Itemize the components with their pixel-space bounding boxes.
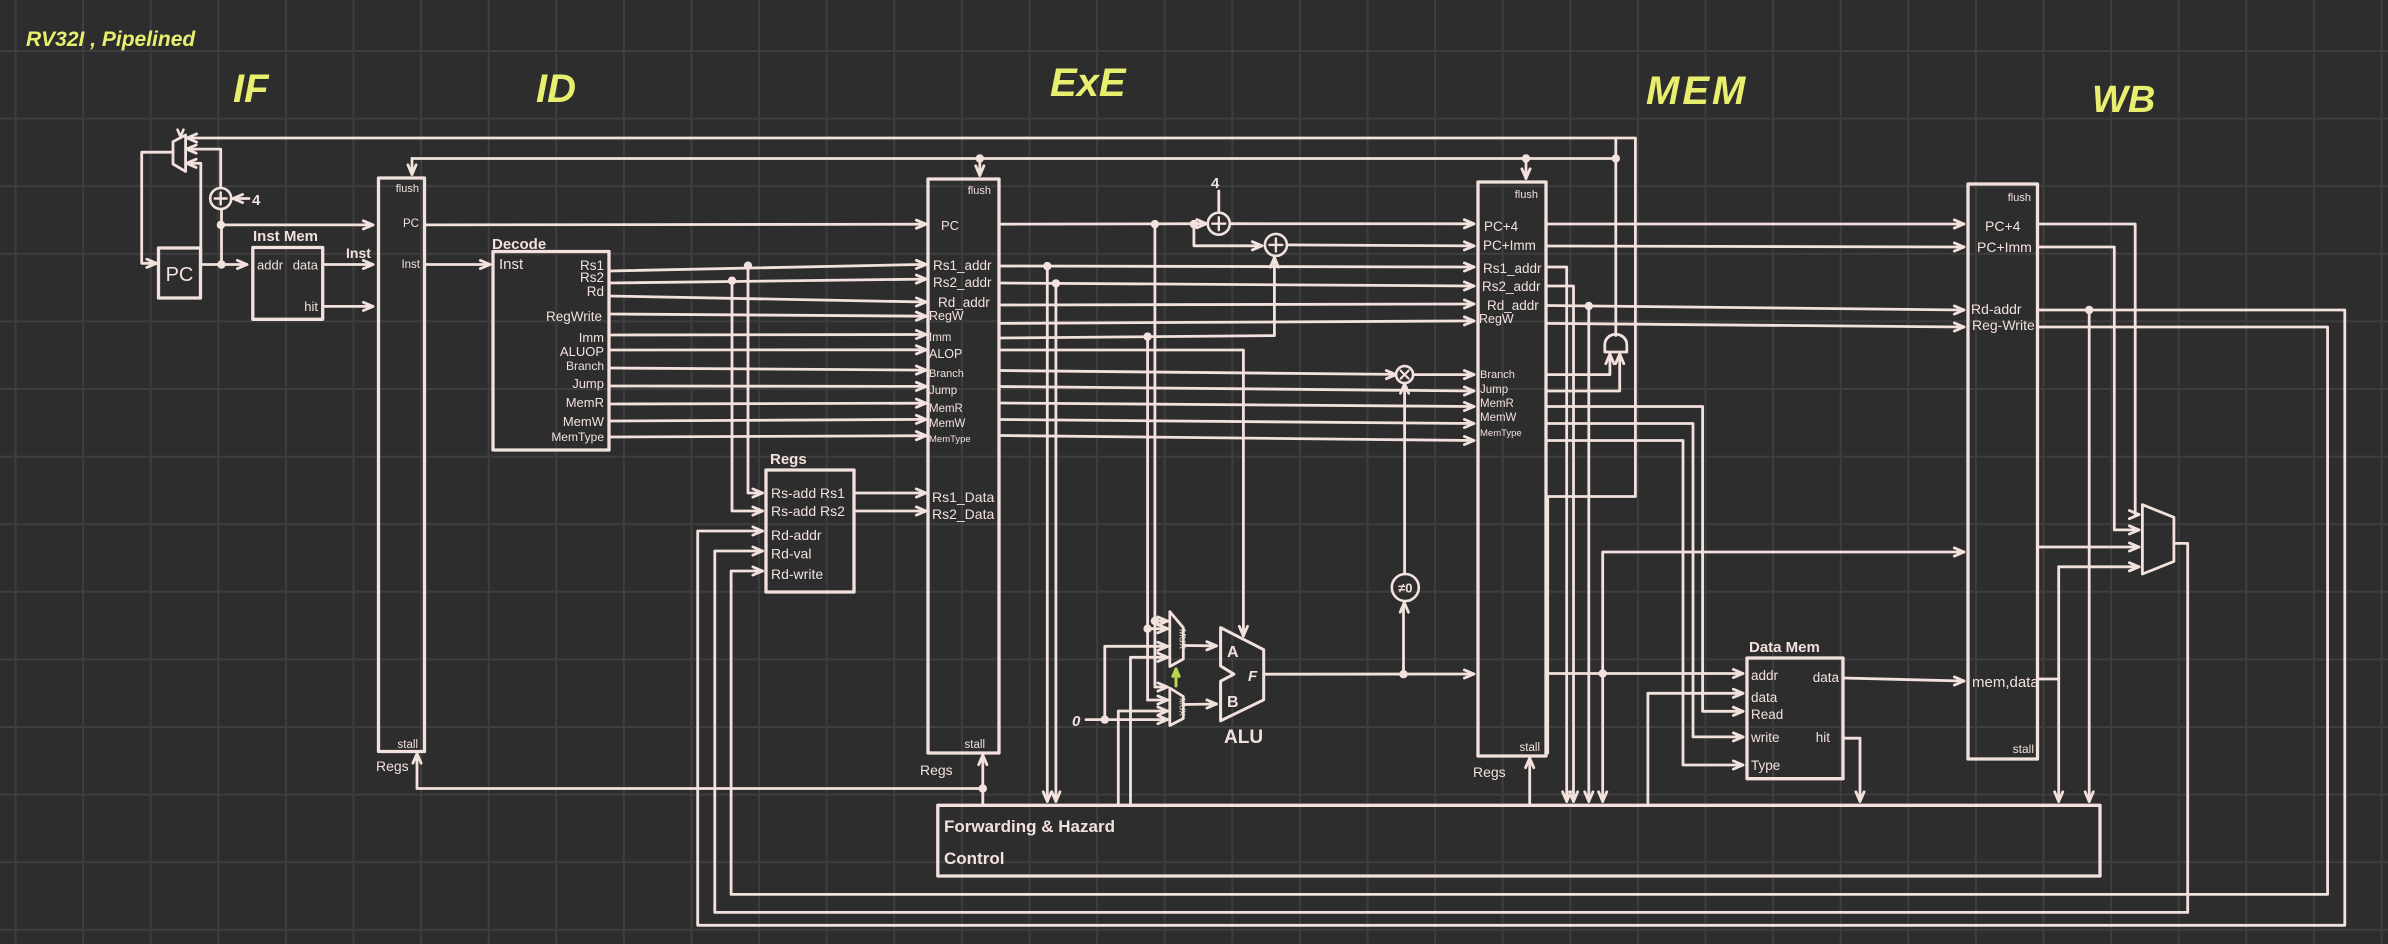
wire ID/EX Rd_addr to EX/MEM bbox=[999, 304, 1473, 305]
wire WB mux output writeback loop to Regs Rd-val bbox=[715, 543, 2188, 912]
svg-text:PC: PC bbox=[403, 218, 419, 230]
svg-text:MemW: MemW bbox=[1480, 412, 1517, 424]
svg-text:MemR: MemR bbox=[929, 403, 963, 415]
wire EX/MEM Rs1_addr to hazard unit bbox=[1546, 267, 1567, 800]
wire Rs1 addr down to Regs bbox=[748, 266, 761, 493]
svg-text:Rs2_Data: Rs2_Data bbox=[932, 506, 994, 522]
wire Imm down to operand muxes bbox=[1146, 337, 1149, 700]
svg-text:addr: addr bbox=[257, 258, 284, 273]
wire EX/MEM RegW to MEM/WB bbox=[1546, 323, 1963, 327]
wire Decode Rs2 to ID/EX bbox=[609, 279, 925, 283]
svg-text:hit: hit bbox=[304, 299, 318, 314]
wire Data Mem data out to MEM/WB bbox=[1843, 678, 1963, 681]
wire PC down to adder PC+Imm bbox=[1194, 224, 1261, 246]
svg-text:flush: flush bbox=[968, 185, 991, 197]
adder IF PC+4 bbox=[210, 188, 231, 209]
svg-text:ALUOP: ALUOP bbox=[560, 344, 604, 359]
svg-text:data: data bbox=[1813, 670, 1840, 685]
node Rs2 tap to register file bbox=[728, 277, 736, 285]
node zero branch to mux A bbox=[1101, 715, 1109, 723]
wire xor output to EX/MEM Branch bbox=[1413, 373, 1472, 376]
svg-text:≠0: ≠0 bbox=[1398, 581, 1412, 596]
svg-text:ID: ID bbox=[536, 67, 576, 111]
wire mux B to ALU B bbox=[1183, 703, 1215, 706]
mux A operand select bbox=[1170, 612, 1184, 667]
svg-text:Rs2_addr: Rs2_addr bbox=[933, 275, 992, 290]
node Imm into mux A bbox=[1143, 625, 1151, 633]
wire flush bus (wire B) bbox=[412, 157, 1616, 160]
wire EX/MEM Jump to and gate bbox=[1546, 356, 1620, 391]
svg-text:data: data bbox=[1751, 690, 1778, 705]
node Rs1_addr to hazard unit bbox=[1043, 262, 1051, 270]
svg-text:ALOP: ALOP bbox=[929, 347, 962, 361]
svg-text:Regs: Regs bbox=[1473, 764, 1506, 780]
wire Regs Rs1 value to ID/EX Rs1_Data bbox=[854, 492, 925, 495]
svg-text:4: 4 bbox=[252, 192, 261, 209]
wire EX/MEM MemR to Data Mem Read bbox=[1546, 407, 1742, 712]
wire Decode MemR to ID/EX bbox=[609, 402, 925, 406]
wire ID/EX Rs2_addr to EX/MEM bbox=[999, 283, 1473, 286]
svg-text:F: F bbox=[1248, 668, 1258, 685]
svg-text:data: data bbox=[293, 258, 319, 273]
wire MEM/WB ALU result to WB mux bbox=[2038, 546, 2138, 549]
svg-text:Rd-addr: Rd-addr bbox=[1971, 301, 2022, 317]
xor gate branch qualify bbox=[1396, 366, 1413, 383]
svg-text:Reg-Write: Reg-Write bbox=[1972, 317, 2035, 333]
wire Decode RegWrite to ID/EX bbox=[609, 314, 925, 316]
wire branch redirect to PC mux (wire A) bbox=[189, 138, 1635, 753]
svg-text:Rd_addr: Rd_addr bbox=[1487, 298, 1539, 313]
wire EX/MEM PC+Imm to MEM/WB bbox=[1546, 246, 1963, 247]
node PC to PC+Imm adder tap bbox=[1190, 220, 1198, 228]
wire and gate output to flush bus bbox=[1614, 138, 1617, 336]
decoder Decode bbox=[493, 252, 609, 451]
wire PC hold loop to PC mux bbox=[188, 163, 201, 264]
svg-text:Jump: Jump bbox=[929, 385, 957, 397]
svg-text:Inst Mem: Inst Mem bbox=[253, 228, 318, 245]
wire Imm into mux B bbox=[1148, 699, 1166, 702]
svg-text:flush: flush bbox=[2008, 192, 2031, 204]
wire stall bus from hazard unit to IF/ID and ID/EX bbox=[417, 787, 983, 790]
svg-text:MUX: MUX bbox=[1178, 698, 1187, 716]
node PC+4 junction bbox=[217, 221, 225, 229]
comparator not-equal-zero bbox=[1392, 574, 1419, 601]
wire MEM/WB PC+4 to WB mux bbox=[2038, 224, 2138, 515]
node Rd_addr to hazard unit bbox=[1585, 302, 1593, 310]
svg-text:Inst: Inst bbox=[401, 259, 420, 271]
node ALU result to neq0 bbox=[1399, 670, 1407, 678]
wire ID/EX MemR to EX/MEM bbox=[999, 403, 1473, 407]
svg-text:write: write bbox=[1750, 730, 1780, 745]
svg-text:Inst: Inst bbox=[346, 245, 371, 261]
wire EX/MEM MemType to Data Mem Type bbox=[1546, 441, 1742, 766]
data memory Data Mem bbox=[1747, 658, 1843, 779]
wire adder PC+Imm to EX/MEM bbox=[1287, 245, 1472, 246]
pipeline register MEM/WB bbox=[1968, 184, 2038, 759]
wire forwarded value to mux B bbox=[1118, 711, 1166, 805]
wire flush drop to IF/ID bbox=[411, 159, 414, 173]
wire mux A to ALU A bbox=[1183, 644, 1215, 647]
svg-text:Branch: Branch bbox=[566, 359, 604, 373]
svg-text:Rs-add Rs2: Rs-add Rs2 bbox=[771, 503, 845, 519]
instruction memory Inst Mem bbox=[253, 248, 323, 320]
wire adder PC+4 to EX/MEM bbox=[1230, 222, 1472, 225]
wire ID/EX RegW to EX/MEM bbox=[999, 321, 1473, 324]
node Rd_addr to hazard unit bbox=[2085, 306, 2093, 314]
svg-text:0: 0 bbox=[1072, 713, 1081, 730]
pipeline register ID/EX bbox=[928, 179, 999, 753]
svg-text:Rd-val: Rd-val bbox=[771, 546, 811, 562]
wire Decode MemType to ID/EX bbox=[609, 436, 925, 437]
adder PC+4 (EX) bbox=[1208, 213, 1230, 235]
svg-text:Regs: Regs bbox=[920, 762, 953, 778]
svg-text:IF: IF bbox=[233, 67, 270, 111]
svg-text:Rs1_addr: Rs1_addr bbox=[1483, 261, 1542, 276]
forwarding and hazard control unit bbox=[938, 805, 2100, 876]
wire MEM/WB Rd_addr writeback loop bbox=[698, 310, 2345, 925]
wire Decode Jump to ID/EX bbox=[609, 385, 925, 388]
wire Inst Mem data to IF/ID Inst bbox=[323, 263, 372, 266]
svg-text:RegWrite: RegWrite bbox=[546, 309, 602, 324]
wire store data from hazard unit to Data Mem bbox=[1648, 693, 1742, 805]
svg-text:Imm: Imm bbox=[929, 332, 951, 344]
wire PC+4 to IF/ID PC port bbox=[221, 223, 372, 226]
svg-text:MemR: MemR bbox=[1480, 398, 1514, 410]
node flush to ID/EX bbox=[976, 154, 984, 162]
wire stall to EX/MEM bbox=[1528, 760, 1531, 805]
wire ID/EX Branch to xor gate bbox=[999, 371, 1395, 375]
svg-text:Read: Read bbox=[1751, 707, 1783, 722]
wire ID/EX Jump to EX/MEM bbox=[999, 387, 1473, 392]
wire ALU result up to MEM/WB bbox=[1603, 552, 1963, 674]
wire neq0 output up to xor bbox=[1403, 386, 1406, 574]
wire ALU F result to EX/MEM bbox=[1264, 673, 1473, 676]
wire Regs Rs2 value to ID/EX Rs2_Data bbox=[854, 510, 925, 513]
wire Rs2 addr down to Regs bbox=[732, 281, 761, 511]
svg-text:MemW: MemW bbox=[929, 418, 966, 430]
svg-text:Rd-addr: Rd-addr bbox=[771, 527, 822, 543]
svg-text:Rs2: Rs2 bbox=[580, 270, 604, 285]
op-amp style ALU bbox=[1221, 628, 1264, 721]
node ALU result junction MEM bbox=[1599, 669, 1607, 677]
node flush to EX/MEM bbox=[1522, 154, 1530, 162]
svg-text:Jump: Jump bbox=[572, 376, 604, 391]
wire forwarded value to mux A bbox=[1131, 657, 1167, 805]
wire ALU result down to hazard unit bbox=[1601, 674, 1604, 800]
svg-text:PC+Imm: PC+Imm bbox=[1977, 239, 2032, 255]
svg-text:RV32I , Pipelined: RV32I , Pipelined bbox=[26, 28, 196, 51]
node PC to mux A tap bbox=[1151, 220, 1159, 228]
register PC bbox=[159, 248, 201, 298]
wire EX/MEM Rs2_addr to hazard unit bbox=[1546, 286, 1574, 800]
svg-text:stall: stall bbox=[398, 739, 418, 751]
adder PC+Imm (EX) bbox=[1265, 234, 1287, 256]
node stall to ID/EX bbox=[979, 784, 987, 792]
svg-text:Branch: Branch bbox=[929, 368, 964, 380]
wire Decode Branch to ID/EX bbox=[609, 368, 925, 370]
wire Inst Mem hit to IF/ID bbox=[323, 305, 372, 308]
svg-text:ExE: ExE bbox=[1050, 61, 1127, 105]
svg-text:Rd: Rd bbox=[587, 284, 604, 299]
wire MEM/WB PC+Imm to WB mux bbox=[2038, 247, 2138, 530]
wire zero up to mux A bbox=[1105, 646, 1166, 719]
node Rs2_addr to hazard unit bbox=[1052, 279, 1060, 287]
svg-text:MemType: MemType bbox=[1480, 428, 1522, 439]
svg-text:Imm: Imm bbox=[579, 330, 604, 345]
svg-text:A: A bbox=[1227, 644, 1239, 661]
wire EX/MEM PC+4 to MEM/WB bbox=[1546, 223, 1963, 226]
register file Regs bbox=[766, 470, 854, 592]
svg-text:RegW: RegW bbox=[929, 309, 964, 323]
svg-text:MemW: MemW bbox=[563, 414, 605, 429]
node PC-out junction bbox=[217, 260, 225, 268]
mux select signal (highlight) bbox=[1175, 671, 1178, 686]
svg-text:Rs1_addr: Rs1_addr bbox=[933, 258, 992, 273]
node Imm tap down to ALU mux bbox=[1143, 332, 1151, 340]
svg-text:PC+4: PC+4 bbox=[1985, 218, 2021, 234]
svg-text:PC+Imm: PC+Imm bbox=[1483, 238, 1536, 253]
pipeline register EX/MEM bbox=[1478, 182, 1546, 756]
svg-text:Jump: Jump bbox=[1480, 384, 1508, 396]
svg-text:stall: stall bbox=[1520, 742, 1540, 754]
wire ID/EX MemType to EX/MEM bbox=[999, 436, 1473, 441]
mux B operand select bbox=[1170, 688, 1184, 726]
node AND output onto flush bus bbox=[1612, 154, 1620, 162]
svg-text:MemR: MemR bbox=[566, 395, 604, 410]
node Rs1 tap to register file bbox=[744, 262, 752, 270]
svg-text:Rs-add Rs1: Rs-add Rs1 bbox=[771, 485, 845, 501]
svg-text:Rd-write: Rd-write bbox=[771, 566, 823, 582]
wire ALU result to Data Mem addr bbox=[1546, 672, 1742, 675]
wire IF/ID PC to ID/EX PC bbox=[425, 223, 925, 226]
pipeline register IF/ID bbox=[379, 178, 425, 752]
svg-text:B: B bbox=[1227, 694, 1239, 711]
wire Decode Rd to ID/EX bbox=[609, 296, 925, 302]
and gate branch taken bbox=[1605, 334, 1627, 352]
svg-text:flush: flush bbox=[1515, 189, 1538, 201]
wire EX/MEM Rd_addr to MEM/WB bbox=[1546, 306, 1963, 311]
wire ID/EX Imm to adder and mux bbox=[999, 260, 1274, 339]
svg-text:4: 4 bbox=[1211, 175, 1220, 192]
svg-text:Branch: Branch bbox=[1480, 369, 1515, 381]
wire Decode MemW to ID/EX bbox=[609, 419, 925, 421]
wire PC to IF adder and PC+4 to mux bbox=[220, 209, 223, 265]
mux writeback select bbox=[2142, 505, 2174, 574]
svg-text:Regs: Regs bbox=[376, 758, 409, 774]
svg-text:WB: WB bbox=[2092, 79, 2155, 121]
node PC into mux A bbox=[1151, 617, 1159, 625]
svg-text:Rs1_Data: Rs1_Data bbox=[932, 489, 994, 505]
svg-text:Inst: Inst bbox=[499, 256, 524, 273]
svg-text:hit: hit bbox=[1816, 730, 1831, 745]
svg-text:Data Mem: Data Mem bbox=[1749, 639, 1820, 656]
svg-text:PC: PC bbox=[941, 218, 959, 233]
wire IF/ID Inst to Decode bbox=[425, 263, 489, 266]
wire EX/MEM Branch to and gate bbox=[1546, 356, 1610, 375]
svg-text:Control: Control bbox=[944, 849, 1004, 868]
wire ID/EX MemW to EX/MEM bbox=[999, 420, 1473, 424]
wire Decode ALUOP to ID/EX bbox=[609, 348, 925, 351]
wire PC into mux B bbox=[1155, 686, 1166, 689]
wire ID/EX PC to adder PC+4 bbox=[999, 222, 1205, 225]
svg-text:flush: flush bbox=[396, 183, 419, 195]
svg-text:PC+4: PC+4 bbox=[1484, 219, 1519, 234]
svg-text:stall: stall bbox=[965, 739, 985, 751]
svg-text:addr: addr bbox=[1751, 668, 1779, 683]
wire ID/EX Rs1_addr to EX/MEM bbox=[999, 266, 1473, 267]
svg-text:Type: Type bbox=[1751, 758, 1780, 773]
svg-text:PC: PC bbox=[166, 264, 194, 286]
svg-text:Rd_addr: Rd_addr bbox=[938, 295, 990, 310]
svg-text:ALU: ALU bbox=[1224, 727, 1263, 748]
svg-text:Rs2_addr: Rs2_addr bbox=[1482, 279, 1541, 294]
wire zero to mux B bbox=[1086, 718, 1166, 721]
wire Decode Imm to ID/EX bbox=[609, 333, 925, 336]
wire PC down to operand muxes bbox=[1154, 224, 1157, 687]
wire PC output to Inst Mem addr bbox=[201, 263, 246, 266]
svg-text:MEM: MEM bbox=[1646, 69, 1748, 113]
svg-text:RegW: RegW bbox=[1479, 312, 1514, 326]
svg-text:Decode: Decode bbox=[492, 236, 546, 253]
wire MEM/WB mem data to WB mux and hazard unit bbox=[2038, 678, 2059, 681]
svg-text:Regs: Regs bbox=[770, 451, 807, 468]
wire MEM/WB Reg_Write writeback loop bbox=[731, 327, 2328, 894]
svg-text:Forwarding & Hazard: Forwarding & Hazard bbox=[944, 817, 1115, 836]
wire stall tap from hazard unit top bbox=[981, 789, 984, 806]
wire EX/MEM MemW to Data Mem write bbox=[1546, 424, 1742, 737]
svg-text:mem,data: mem,data bbox=[1972, 674, 2039, 691]
svg-text:stall: stall bbox=[2013, 742, 2034, 756]
wire Data Mem hit to hazard unit bbox=[1843, 738, 1860, 799]
wire ID/EX ALUOP down to ALU bbox=[999, 350, 1243, 634]
svg-text:MemType: MemType bbox=[551, 430, 604, 444]
wire PC mux output to PC input bbox=[142, 152, 173, 263]
wire Decode Rs1 to ID/EX bbox=[609, 264, 925, 271]
svg-text:MemType: MemType bbox=[929, 434, 971, 445]
mux PC-select bbox=[173, 135, 186, 171]
